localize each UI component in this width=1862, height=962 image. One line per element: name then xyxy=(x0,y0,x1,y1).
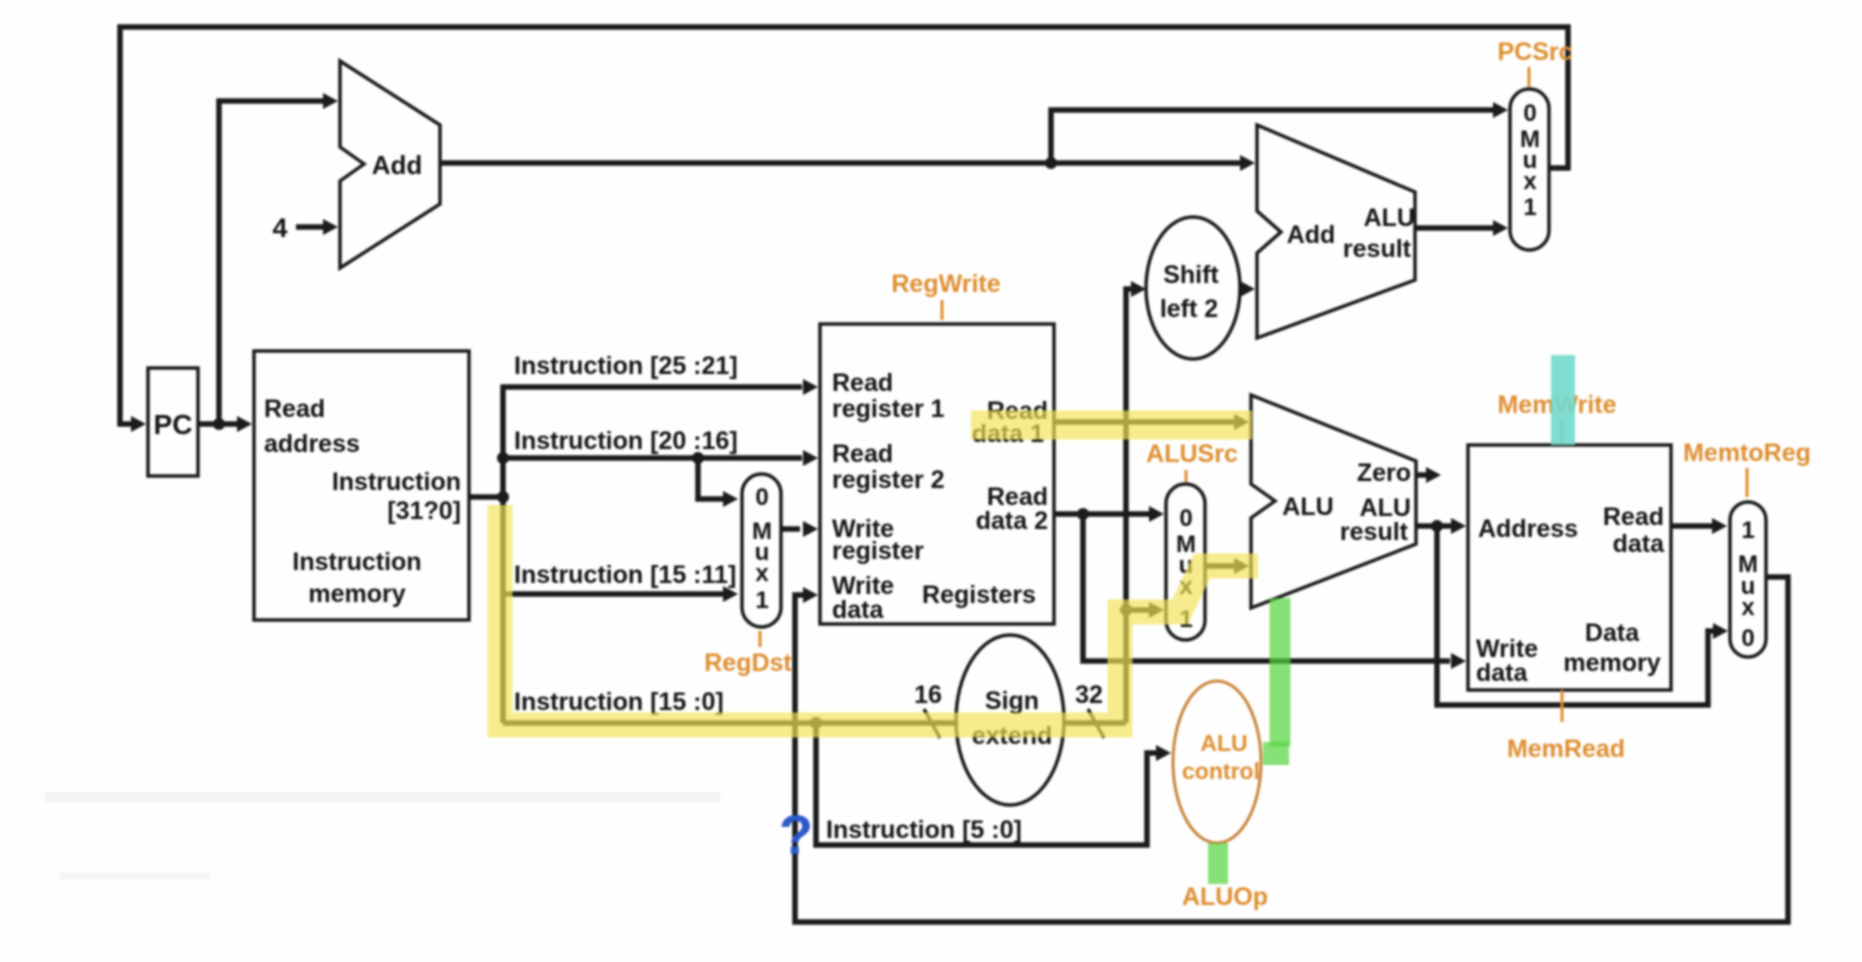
svg-text:[31?0]: [31?0] xyxy=(387,497,461,525)
wire Add output to branch adder xyxy=(440,155,1255,171)
ALUOp control label xyxy=(1182,883,1268,911)
svg-text:?: ? xyxy=(779,803,813,866)
svg-text:Instruction [20 :16]: Instruction [20 :16] xyxy=(514,427,738,455)
highlight green ALUOp to ALU control path xyxy=(1208,843,1228,884)
svg-text:x: x xyxy=(1741,594,1755,621)
svg-text:data: data xyxy=(1476,659,1529,687)
wire ALU result bypass to MemtoReg mux input 0 xyxy=(1437,526,1728,705)
wire Instruction [15:11] to RegDst mux input 1 xyxy=(503,561,738,602)
wire PC+4 to PCSrc mux input 0 xyxy=(1051,102,1508,163)
svg-text:0: 0 xyxy=(1179,505,1192,532)
svg-text:Read: Read xyxy=(832,369,893,397)
svg-text:MemtoReg: MemtoReg xyxy=(1683,439,1811,467)
svg-text:left 2: left 2 xyxy=(1160,295,1218,323)
wire ALU Zero output xyxy=(1416,467,1441,483)
wire RegDst mux output to Write register xyxy=(781,521,818,537)
wire Read data 2 to ALUSrc mux input 0 xyxy=(1054,506,1164,522)
svg-text:control: control xyxy=(1182,758,1260,784)
svg-text:Registers: Registers xyxy=(922,581,1036,609)
wire Instruction [5:0] to ALU control xyxy=(816,723,1171,845)
svg-text:data 2: data 2 xyxy=(976,507,1048,535)
wire sign extend output xyxy=(1064,720,1126,726)
svg-text:ALUOp: ALUOp xyxy=(1182,883,1268,911)
wire ALUSrc mux output to ALU input 2 xyxy=(1205,558,1249,574)
svg-text:1: 1 xyxy=(1741,517,1754,544)
svg-text:4: 4 xyxy=(272,213,287,243)
wire instruction memory output to trunk node xyxy=(469,491,509,503)
highlight green ALU control to ALU path xyxy=(1270,598,1291,746)
svg-text:Address: Address xyxy=(1478,515,1578,543)
wire PC value up to Add xyxy=(219,93,338,424)
svg-text:32: 32 xyxy=(1075,681,1103,709)
svg-text:PCSrc: PCSrc xyxy=(1497,38,1572,66)
svg-text:PC: PC xyxy=(154,409,193,440)
svg-text:data: data xyxy=(832,596,885,624)
svg-text:result: result xyxy=(1343,235,1412,263)
svg-text:1: 1 xyxy=(755,587,768,614)
MemRead control label xyxy=(1507,690,1625,763)
svg-text:register 2: register 2 xyxy=(832,466,945,494)
svg-text:Instruction [5 :0]: Instruction [5 :0] xyxy=(826,816,1022,844)
svg-text:0: 0 xyxy=(1523,100,1536,127)
wire Read data 1 to ALU input 1 xyxy=(1054,414,1249,430)
PC register xyxy=(148,368,198,476)
highlight cyan MemWrite band xyxy=(1551,355,1575,445)
RegWrite control label xyxy=(891,270,1000,320)
svg-text:Sign: Sign xyxy=(985,687,1039,715)
RegDst control label xyxy=(704,631,792,677)
svg-text:register: register xyxy=(832,537,924,565)
svg-text:Instruction [15 :0]: Instruction [15 :0] xyxy=(514,688,724,716)
svg-text:16: 16 xyxy=(914,681,942,709)
bus width 32 marker xyxy=(1075,681,1104,738)
wire sign extend branch to ALUSrc mux input 1 xyxy=(1126,602,1164,618)
adder Add ALU result (branch target) xyxy=(1257,125,1415,338)
svg-text:0: 0 xyxy=(755,484,768,511)
svg-text:x: x xyxy=(755,560,769,587)
wire Instruction [20:16] to Read register 2 xyxy=(497,427,818,466)
MemtoReg control label xyxy=(1683,439,1811,497)
wire branch adder output to PCSrc mux input 1 xyxy=(1415,220,1508,236)
svg-text:register 1: register 1 xyxy=(832,395,945,423)
highlight yellow Read data 1 path xyxy=(971,411,1252,440)
highlight yellow immediate path through sign extend and ALUSrc mux xyxy=(500,505,1258,725)
svg-text:data: data xyxy=(1613,530,1666,558)
wire shift left 2 output to branch adder xyxy=(1240,281,1255,297)
wire Read data 2 branch to data memory Write data xyxy=(1083,514,1466,669)
wire PC output to instruction memory read address xyxy=(198,416,252,432)
mux MemtoReg (1/0) xyxy=(1730,502,1766,657)
svg-text:Shift: Shift xyxy=(1163,261,1219,289)
svg-text:Data: Data xyxy=(1585,619,1640,647)
svg-text:1: 1 xyxy=(1523,194,1536,221)
data memory xyxy=(1468,445,1671,690)
ALU xyxy=(1251,395,1416,608)
wire Instruction [20:16] branch to RegDst mux input 0 xyxy=(698,458,738,507)
bus width 16 marker xyxy=(914,681,942,738)
svg-text:0: 0 xyxy=(1741,625,1754,652)
wire Instruction [25:21] to Read register 1 xyxy=(503,352,818,497)
faint scan artifact smudges xyxy=(45,797,720,876)
wire data memory Read data to MemtoReg mux input 1 xyxy=(1671,518,1727,534)
mux ALUSrc (0/1) xyxy=(1166,484,1205,640)
instruction memory xyxy=(254,351,469,620)
mux PCSrc (0/1) xyxy=(1510,89,1549,250)
ALU control unit xyxy=(1173,681,1261,843)
svg-text:Add: Add xyxy=(1287,221,1336,249)
shift left 2 unit xyxy=(1146,217,1240,359)
PCSrc control label xyxy=(1497,38,1572,87)
svg-text:Instruction [25 :21]: Instruction [25 :21] xyxy=(514,352,738,380)
registers file xyxy=(820,324,1054,624)
wire PC feedback top loop from PCSrc mux output to PC input xyxy=(120,27,1568,432)
mux RegDst (0/1) xyxy=(742,474,781,627)
svg-text:Instruction [15 :11]: Instruction [15 :11] xyxy=(514,561,736,589)
svg-text:Instruction: Instruction xyxy=(332,468,461,496)
svg-text:Zero: Zero xyxy=(1357,459,1411,487)
wire Instruction [15:0] to sign extend xyxy=(503,688,958,729)
svg-text:ALUSrc: ALUSrc xyxy=(1146,440,1238,468)
ALUSrc control label xyxy=(1146,440,1238,482)
svg-text:Instruction: Instruction xyxy=(292,548,421,576)
svg-text:Read: Read xyxy=(832,440,893,468)
svg-text:MemRead: MemRead xyxy=(1507,735,1625,763)
svg-text:memory: memory xyxy=(308,580,405,608)
svg-text:ALU: ALU xyxy=(1200,730,1247,756)
wire sign extend input xyxy=(956,720,958,726)
wire write-back from MemtoReg mux to registers Write data xyxy=(795,577,1788,922)
wire ALU result to data memory Address xyxy=(1416,518,1466,534)
svg-text:result: result xyxy=(1340,518,1409,546)
svg-text:ALU: ALU xyxy=(1282,493,1333,521)
wire sign extend output up to shift left 2 xyxy=(1120,281,1146,723)
svg-text:ALU: ALU xyxy=(1364,204,1415,232)
svg-text:Read: Read xyxy=(1603,503,1664,531)
svg-text:memory: memory xyxy=(1563,649,1660,677)
constant 4 input xyxy=(272,213,338,243)
svg-text:x: x xyxy=(1523,168,1537,195)
adder Add (PC+4) xyxy=(340,61,440,268)
svg-text:address: address xyxy=(264,430,360,458)
wire instruction trunk down xyxy=(500,497,506,723)
svg-text:RegDst: RegDst xyxy=(704,649,792,677)
svg-text:Add: Add xyxy=(372,150,423,180)
sign extend unit xyxy=(956,635,1064,805)
MemWrite control label xyxy=(1497,391,1616,443)
svg-text:RegWrite: RegWrite xyxy=(891,270,1000,298)
svg-text:Read: Read xyxy=(264,395,325,423)
